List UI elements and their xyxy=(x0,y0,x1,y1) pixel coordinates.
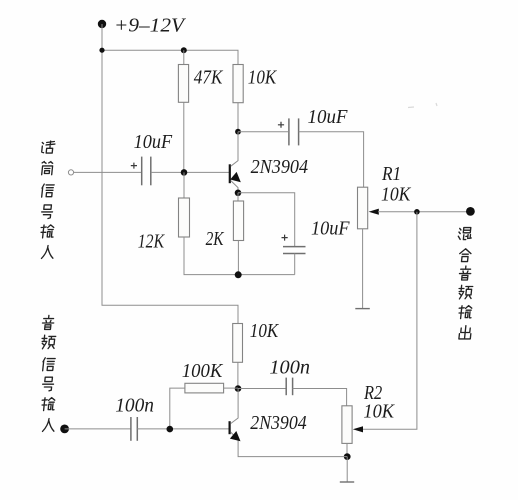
wire: top supply rail xyxy=(102,50,238,64)
svg-text:100n: 100n xyxy=(269,356,310,378)
potentiometer R2 body xyxy=(342,406,352,444)
label 号 (mic) xyxy=(41,205,53,219)
resistor 100K feedback xyxy=(185,383,224,393)
wire: 2K bottom lead xyxy=(237,241,239,275)
resistor 12K xyxy=(179,198,190,237)
polarity + of bypass cap xyxy=(282,235,288,241)
svg-text:10uF: 10uF xyxy=(134,131,173,153)
capacitor C4 100n left plate xyxy=(130,417,132,441)
wire: 10K bottom lead to collector node xyxy=(237,103,239,132)
wire: power vertical drop from +9-12V dot to stage-2 feed xyxy=(102,24,238,324)
transistor Q1 base bar xyxy=(229,164,231,183)
capacitor C1 10uF left plate xyxy=(141,157,143,186)
capacitor 10uF bypass bottom plate xyxy=(283,253,306,255)
R2 wiper arrowhead xyxy=(353,426,363,432)
node: base/bias junction xyxy=(181,169,188,176)
label 输 (mic) xyxy=(40,225,54,238)
capacitor 10uF bypass top plate xyxy=(283,246,306,248)
svg-text:10K: 10K xyxy=(363,401,395,423)
output terminal dot xyxy=(466,207,475,216)
wire: audio input to C4 xyxy=(65,428,131,430)
transistor Q1 emitter arrow xyxy=(230,172,241,182)
mic input terminal (open circle) xyxy=(68,170,73,175)
wire: C1 to Q1 base xyxy=(151,171,229,173)
label 话 (mic input column) xyxy=(41,141,55,153)
wire: R2 bottom lead xyxy=(346,443,348,456)
label 合 (output) xyxy=(459,249,472,262)
svg-text:10K: 10K xyxy=(250,320,280,342)
ground bar (stage2) xyxy=(340,481,354,483)
wire: stage2 10K bottom lead xyxy=(237,362,239,388)
label 信 (audio) xyxy=(42,358,55,371)
wire: bypass cap bottom lead xyxy=(294,254,296,275)
ground bar (R1) xyxy=(355,308,370,310)
wire: R1 bottom to ground xyxy=(362,229,364,309)
svg-text:R1: R1 xyxy=(381,163,401,185)
node: stage2 ground junction xyxy=(344,453,351,460)
resistor R 47K xyxy=(178,65,188,103)
svg-text:47K: 47K xyxy=(194,66,224,88)
node: audio line junction xyxy=(167,426,174,433)
label 频 (audio) xyxy=(41,335,56,349)
audio input terminal dot xyxy=(60,425,69,434)
power supply terminal dot xyxy=(98,20,106,28)
label 混 (output column) xyxy=(458,228,472,240)
polarity + of C1 xyxy=(131,163,137,169)
transistor Q1 collector stroke xyxy=(231,132,238,167)
node: 47K top junction xyxy=(181,47,187,53)
label 音 (audio input column) xyxy=(42,315,55,329)
capacitor C5 100n left plate xyxy=(285,378,287,396)
capacitor C2 10uF output left plate xyxy=(288,118,290,145)
wire: emitter to bypass cap xyxy=(238,193,295,246)
capacitor C5 100n right plate xyxy=(292,378,294,396)
wire: 12K top lead xyxy=(183,172,185,198)
svg-text:10uF: 10uF xyxy=(308,106,349,128)
label 入 (mic) xyxy=(41,246,54,259)
wire: emitter to 2K top xyxy=(237,193,239,201)
svg-text:+9–12V: +9–12V xyxy=(114,15,187,37)
label 输 (audio) xyxy=(41,398,55,411)
wire: collector node to C5 xyxy=(238,388,286,390)
wire: 47K top lead xyxy=(183,50,185,64)
label 号 (audio) xyxy=(42,377,54,391)
node: supply rail left junction xyxy=(99,48,104,53)
polarity + of C2 xyxy=(278,122,284,128)
label 频 (output) xyxy=(458,285,473,299)
label 出 (output) xyxy=(459,326,472,339)
node: Q1 collector junction xyxy=(235,129,241,135)
label 音 (output) xyxy=(459,266,472,280)
wire: 47K bottom lead to base node xyxy=(183,102,185,172)
stray speck artifacts top right xyxy=(408,103,437,108)
capacitor C1 10uF right plate xyxy=(150,157,152,186)
wire: 12K bottom lead to stage1 ground rail xyxy=(184,237,295,275)
node: Q1 emitter junction xyxy=(235,190,242,197)
wire: 100K right lead xyxy=(224,387,238,389)
transistor Q2 emitter stroke xyxy=(231,432,348,457)
label 信 (mic) xyxy=(41,184,54,197)
label 输 (output) xyxy=(458,306,472,319)
svg-text:100K: 100K xyxy=(182,360,224,382)
node: stage1 ground rail junction xyxy=(235,271,242,278)
wire: collector node to C2 xyxy=(238,131,289,133)
capacitor C4 100n right plate xyxy=(136,417,138,441)
wire: R1 wiper to output xyxy=(378,211,470,213)
svg-text:10uF: 10uF xyxy=(311,217,350,239)
svg-text:12K: 12K xyxy=(138,231,166,253)
resistor 10K (stage1 collector) xyxy=(233,65,243,103)
wire: mic input to C1 xyxy=(74,171,142,173)
svg-text:2K: 2K xyxy=(206,228,225,250)
transistor Q2 base bar xyxy=(229,421,231,434)
wire: 100K left lead down to input line xyxy=(170,388,185,429)
wire: C4 to Q2 base xyxy=(137,428,229,430)
capacitor C2 10uF output right plate xyxy=(298,118,300,145)
wire: feedback line down to R2 wiper xyxy=(362,212,417,429)
label 入 (audio) xyxy=(42,419,55,432)
transistor Q1 emitter stroke xyxy=(231,181,238,193)
wire: ground drop below R2 xyxy=(346,457,348,482)
wire: C5 to R2 top xyxy=(293,389,347,406)
svg-text:2N3904: 2N3904 xyxy=(250,412,307,434)
node: wiper line junction xyxy=(414,209,420,215)
svg-text:10K: 10K xyxy=(248,66,278,88)
resistor 10K (stage2 feed) xyxy=(233,324,243,363)
transistor Q2 collector stroke xyxy=(231,389,239,424)
svg-text:10K: 10K xyxy=(381,183,412,205)
wire: C2 to R1 top xyxy=(299,132,364,187)
resistor 2K xyxy=(233,201,243,241)
svg-text:100n: 100n xyxy=(115,395,154,417)
potentiometer R1 body xyxy=(358,187,368,229)
label 筒 xyxy=(41,162,53,175)
transistor Q2 emitter arrow xyxy=(230,431,241,441)
node: Q2 collector junction xyxy=(235,385,242,392)
svg-text:2N3904: 2N3904 xyxy=(251,156,309,178)
R1 wiper arrowhead xyxy=(369,209,379,215)
